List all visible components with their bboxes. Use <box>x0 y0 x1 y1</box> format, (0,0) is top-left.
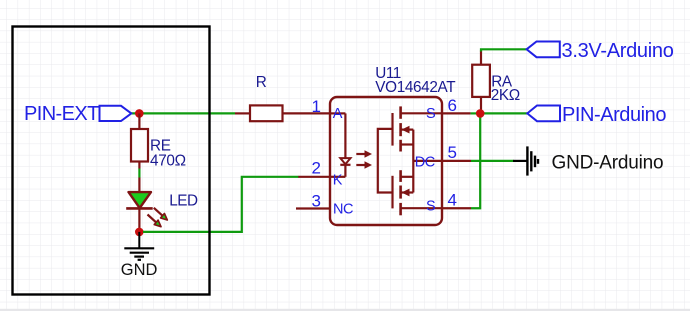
wire 3.3V-Arduino to RA <box>481 49 527 51</box>
junction node U11 pin 6 / RA / PIN-Arduino <box>476 109 485 118</box>
U11 lower MOSFET <box>393 170 443 215</box>
svg-text:S: S <box>426 106 436 122</box>
U11 pin 2 stub <box>298 176 330 178</box>
svg-text:DC: DC <box>415 155 435 171</box>
svg-text:4: 4 <box>448 191 457 210</box>
svg-text:R: R <box>256 74 267 91</box>
wire PIN-EXT node to resistor R <box>131 112 235 114</box>
svg-text:LED: LED <box>169 193 198 210</box>
svg-text:2: 2 <box>312 159 321 178</box>
U11 pin name S (top) <box>426 106 436 122</box>
U11 pin 4 number <box>448 191 457 210</box>
ground GND label <box>121 261 158 279</box>
U11 optical coupling arrows <box>356 150 372 169</box>
resistor RE name label <box>150 137 171 154</box>
ground GND-Arduino label <box>552 152 664 173</box>
resistor RE <box>131 113 148 168</box>
U11 pin 3 stub (NC) <box>296 207 330 209</box>
resistor RA <box>472 51 490 114</box>
resistor RE value label 470Ω <box>150 153 186 170</box>
U11 pin 4 stub <box>442 207 471 209</box>
U11 value label VO14642AT <box>375 79 455 96</box>
svg-text:3.3V-Arduino: 3.3V-Arduino <box>562 40 674 62</box>
U11 pin 6 number <box>448 96 457 115</box>
svg-text:VO14642AT: VO14642AT <box>375 79 455 96</box>
svg-text:470Ω: 470Ω <box>150 153 186 170</box>
svg-text:PIN-EXT: PIN-EXT <box>24 103 99 125</box>
svg-text:2KΩ: 2KΩ <box>491 87 520 104</box>
U11 source/body tie bus with DC tap <box>413 130 442 193</box>
U11 pin name K <box>333 173 343 189</box>
wire node down to U11 pin 4 <box>471 113 480 208</box>
net label 3.3V-Arduino <box>527 40 674 62</box>
svg-text:S: S <box>426 199 436 215</box>
junction node PIN-EXT / RE <box>135 109 144 118</box>
resistor RA value label 2KΩ <box>491 87 520 104</box>
svg-text:6: 6 <box>448 96 457 115</box>
svg-text:5: 5 <box>448 143 457 162</box>
svg-text:GND: GND <box>121 261 158 279</box>
U11 pin 6 stub <box>442 112 471 114</box>
junction node LED cathode <box>135 228 144 237</box>
svg-text:GND-Arduino: GND-Arduino <box>552 152 664 173</box>
wire RE to LED <box>138 169 140 178</box>
op-to relay U11 body box <box>330 97 442 225</box>
U11 pin name S (bottom) <box>426 199 436 215</box>
svg-text:K: K <box>333 173 343 189</box>
svg-text:NC: NC <box>333 202 353 218</box>
svg-text:PIN-Arduino: PIN-Arduino <box>562 104 666 126</box>
wire LED node to U11 pin 2 <box>143 177 299 232</box>
U11 pin 1 number <box>312 97 321 116</box>
wire U11 pin 5 to GND-Arduino <box>471 160 514 162</box>
U11 pin 5 stub <box>442 160 471 162</box>
ground GND <box>124 232 154 260</box>
U11 pin 5 number <box>448 143 457 162</box>
U11 internal photodiode <box>330 113 351 176</box>
U11 reference label <box>375 65 400 82</box>
LED name label <box>169 193 198 210</box>
wire node to PIN-Arduino <box>480 112 529 114</box>
net label PIN-EXT <box>24 103 131 125</box>
resistor RA name label <box>491 74 513 91</box>
svg-text:3: 3 <box>312 192 321 211</box>
LED <box>126 178 167 232</box>
resistor R name label <box>256 74 267 91</box>
U11 pin 3 number <box>312 192 321 211</box>
U11 pin name NC <box>333 202 353 218</box>
U11 pin 2 number <box>312 159 321 178</box>
svg-text:A: A <box>333 106 343 122</box>
U11 upper MOSFET <box>393 106 443 151</box>
resistor R <box>235 105 330 121</box>
U11 pin name DC <box>415 155 435 171</box>
U11 pin name A <box>333 106 343 122</box>
wire U11 pin 6 to node <box>471 112 481 114</box>
net label PIN-Arduino <box>527 104 666 126</box>
svg-text:1: 1 <box>312 97 321 116</box>
ground GND-Arduino <box>513 146 538 175</box>
external circuit enclosure box <box>13 27 210 295</box>
U11 gate bus <box>378 129 393 193</box>
